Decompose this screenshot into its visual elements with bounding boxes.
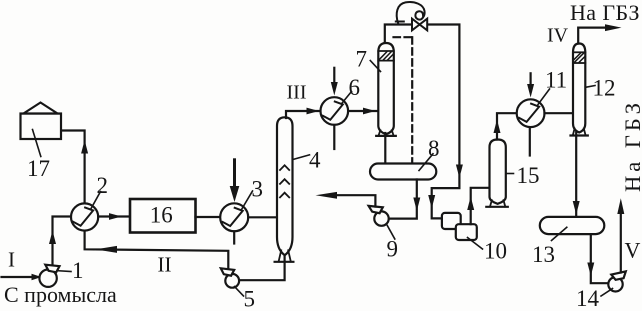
- wire return line II from pump 5 to heat exchanger 2: [85, 231, 229, 270]
- svg-text:6: 6: [349, 75, 361, 100]
- label 10: [468, 238, 508, 264]
- label 8: [419, 136, 440, 171]
- label 15: [506, 163, 539, 188]
- svg-text:8: 8: [428, 136, 440, 161]
- wire stream I inlet to pump 1: [2, 274, 42, 281]
- unit 16 box: [130, 199, 196, 233]
- drum 13: [540, 217, 605, 234]
- label 1: [59, 258, 84, 283]
- tank 17: [21, 103, 62, 140]
- wire vessel 7 top to control valve line: [385, 25, 412, 43]
- svg-text:13: 13: [532, 242, 555, 267]
- heat exchanger 3: [220, 203, 248, 231]
- svg-text:11: 11: [545, 68, 567, 93]
- label 9: [387, 226, 399, 262]
- boxes 10: [442, 213, 477, 240]
- wire pump 14 discharge up stream V: [617, 198, 624, 272]
- wire box 16 to heat exchanger 3: [196, 216, 221, 218]
- svg-text:V: V: [625, 238, 641, 263]
- wire drum 13 to pump 14: [587, 234, 608, 283]
- coolant arrow into heat exchanger 6: [331, 68, 338, 96]
- svg-text:I: I: [8, 248, 15, 272]
- wire column 4 bottom to pump 5: [239, 255, 284, 280]
- dashed impulse line to drum 8: [394, 37, 413, 163]
- svg-text:1: 1: [72, 258, 84, 283]
- wire drum 8 bottom to pump 9: [389, 180, 421, 219]
- label 6: [342, 75, 361, 104]
- svg-text:III: III: [287, 82, 307, 104]
- pump 5: [221, 268, 239, 287]
- label 5: [235, 287, 256, 311]
- wire pump 9 discharge to left arrow: [316, 192, 376, 207]
- svg-text:4: 4: [309, 148, 321, 173]
- wire heat exchanger 3 to column 4: [248, 216, 277, 218]
- svg-text:7: 7: [356, 47, 368, 72]
- wire pump 1 discharge to heat exchanger 2: [49, 217, 71, 266]
- wire vessel 15 top to heat exchanger 11: [494, 113, 517, 139]
- svg-text:На ГБЗ: На ГБЗ: [570, 0, 640, 25]
- svg-text:5: 5: [244, 287, 256, 311]
- wire vessel 7 bottom to drum 8: [384, 133, 386, 164]
- label 11: [538, 68, 567, 105]
- wire vessel 12 bottom to drum 13: [573, 133, 580, 217]
- svg-text:10: 10: [484, 239, 507, 264]
- label 4: [293, 148, 321, 173]
- svg-text:IV: IV: [547, 25, 569, 47]
- vessel 12: [571, 44, 588, 136]
- svg-text:С промысла: С промысла: [4, 282, 117, 307]
- column 4: [275, 117, 294, 261]
- label 12: [586, 76, 616, 101]
- label 13: [532, 227, 567, 267]
- drum 8: [370, 164, 436, 180]
- wire heat exchanger 6 to vessel 7: [348, 108, 378, 115]
- wire vessel 12 top to На ГБЗ: [578, 24, 621, 43]
- svg-text:9: 9: [387, 237, 399, 262]
- svg-text:14: 14: [576, 286, 600, 311]
- heat exchanger 6 bottom stub: [333, 125, 335, 149]
- label 14: [576, 286, 613, 311]
- heat exchanger 6: [321, 97, 349, 125]
- vessel 15: [486, 140, 508, 207]
- heat exchanger 2: [71, 203, 98, 230]
- svg-text:12: 12: [593, 76, 616, 101]
- wire column 4 top to heat exchanger 6: [286, 108, 321, 118]
- label 2: [91, 173, 109, 210]
- heat exchanger 3 bottom stub: [233, 231, 235, 243]
- svg-text:На ГБЗ: На ГБЗ: [620, 99, 642, 192]
- wire heat exchanger 11 to vessel 12: [545, 112, 574, 114]
- pump 9: [369, 206, 389, 226]
- wire box 10 to vessel 15: [467, 188, 489, 224]
- valve actuator loop: [396, 2, 425, 24]
- wire heat exchanger 2 to box 16: [98, 213, 130, 220]
- coolant arrow into heat exchanger 11: [527, 73, 534, 97]
- label 7: [356, 47, 381, 72]
- svg-text:II: II: [158, 253, 172, 277]
- pump 1: [39, 265, 59, 287]
- svg-text:15: 15: [517, 163, 540, 188]
- svg-text:2: 2: [97, 173, 109, 198]
- control valve: [412, 19, 427, 31]
- svg-text:3: 3: [252, 177, 264, 202]
- label 17: [27, 130, 50, 182]
- svg-text:16: 16: [150, 203, 173, 228]
- coolant arrow into heat exchanger 3: [230, 160, 240, 202]
- wire valve to right drop and boxes 10: [427, 25, 463, 219]
- wire heat exchanger 2 top to tank 17: [61, 131, 88, 204]
- svg-text:17: 17: [27, 156, 50, 181]
- vessel 7: [376, 43, 396, 136]
- heat exchanger 11: [517, 99, 545, 127]
- pump 14: [608, 271, 626, 291]
- label 3: [242, 177, 264, 210]
- heat exchanger 11 bottom stub: [529, 127, 531, 155]
